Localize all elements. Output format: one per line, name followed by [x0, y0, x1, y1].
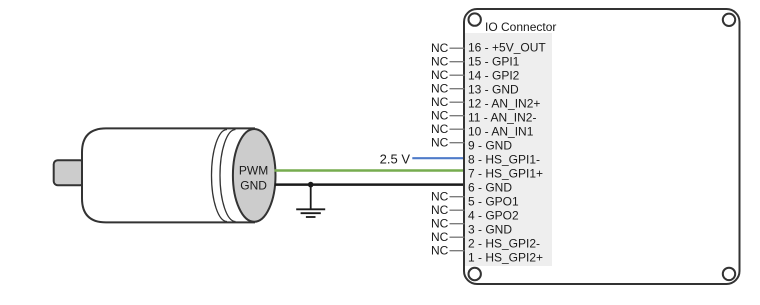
svg-text:3 - GND: 3 - GND	[468, 222, 512, 236]
motor ring arc 1	[211, 130, 227, 222]
NC stub pin 16	[450, 47, 465, 49]
svg-text:NC: NC	[431, 122, 449, 136]
mounting hole top-left	[469, 13, 481, 25]
svg-text:NC: NC	[431, 217, 449, 231]
svg-text:NC: NC	[431, 190, 449, 204]
svg-text:8 - HS_GPI1-: 8 - HS_GPI1-	[468, 152, 540, 166]
svg-text:NC: NC	[431, 68, 449, 82]
NC stub pin 13	[450, 88, 465, 90]
NC stub pin 15	[450, 61, 465, 63]
NC stub pin 10	[450, 128, 465, 130]
svg-text:NC: NC	[431, 244, 449, 258]
svg-text:1 - HS_GPI2+: 1 - HS_GPI2+	[468, 250, 543, 264]
svg-text:NC: NC	[431, 203, 449, 217]
svg-text:11 - AN_IN2-: 11 - AN_IN2-	[468, 110, 536, 124]
ground symbol bar 1	[296, 208, 325, 210]
svg-text:NC: NC	[431, 41, 449, 55]
svg-text:GND: GND	[240, 178, 267, 192]
svg-text:NC: NC	[431, 82, 449, 96]
svg-text:14 - GPI2: 14 - GPI2	[468, 68, 520, 82]
NC stub pin 3	[450, 223, 465, 225]
svg-text:15 - GPI1: 15 - GPI1	[468, 54, 520, 68]
svg-text:PWM: PWM	[239, 164, 268, 178]
motor shaft	[54, 160, 84, 185]
mounting hole bottom-right	[723, 268, 735, 280]
wire GND to pin 6 (black)	[275, 183, 465, 186]
svg-text:7 - HS_GPI1+: 7 - HS_GPI1+	[468, 166, 543, 180]
NC stub pin 2	[450, 236, 465, 238]
NC stub pin 5	[450, 196, 465, 198]
svg-text:IO Connector: IO Connector	[485, 20, 556, 34]
NC stub pin 1	[450, 250, 465, 252]
ground symbol stem	[310, 185, 312, 209]
svg-text:2.5 V: 2.5 V	[380, 152, 411, 167]
ground symbol bar 2	[301, 212, 321, 214]
motor ring arc 2	[220, 130, 236, 222]
svg-text:NC: NC	[431, 109, 449, 123]
ground symbol bar 3	[306, 216, 316, 218]
pin label strip	[465, 33, 552, 266]
svg-text:2 - HS_GPI2-: 2 - HS_GPI2-	[468, 236, 540, 250]
junction dot on GND wire	[308, 182, 314, 188]
wire PWM to pin 7 (green)	[275, 169, 465, 171]
NC stub pin 9	[450, 142, 465, 144]
NC stub pin 14	[450, 74, 465, 76]
svg-text:NC: NC	[431, 230, 449, 244]
svg-text:NC: NC	[431, 55, 449, 69]
svg-text:4 - GPO2: 4 - GPO2	[468, 208, 519, 222]
motor M1 body	[82, 128, 255, 222]
svg-text:10 - AN_IN1: 10 - AN_IN1	[468, 124, 534, 138]
svg-text:NC: NC	[431, 95, 449, 109]
svg-text:NC: NC	[431, 136, 449, 150]
svg-text:6 - GND: 6 - GND	[468, 180, 512, 194]
mounting hole top-right	[723, 14, 735, 26]
NC stub pin 12	[450, 101, 465, 103]
NC stub pin 11	[450, 115, 465, 117]
NC stub pin 4	[450, 209, 465, 211]
svg-text:9 - GND: 9 - GND	[468, 138, 512, 152]
wire 2.5V to pin 8 (blue)	[412, 157, 464, 159]
svg-text:12 - AN_IN2+: 12 - AN_IN2+	[468, 96, 540, 110]
mounting hole bottom-left	[469, 268, 481, 280]
motor end cap	[233, 129, 276, 222]
svg-text:5 - GPO1: 5 - GPO1	[468, 194, 519, 208]
IO connector outline	[464, 9, 740, 284]
svg-text:16 - +5V_OUT: 16 - +5V_OUT	[468, 40, 546, 54]
svg-text:13 - GND: 13 - GND	[468, 82, 519, 96]
